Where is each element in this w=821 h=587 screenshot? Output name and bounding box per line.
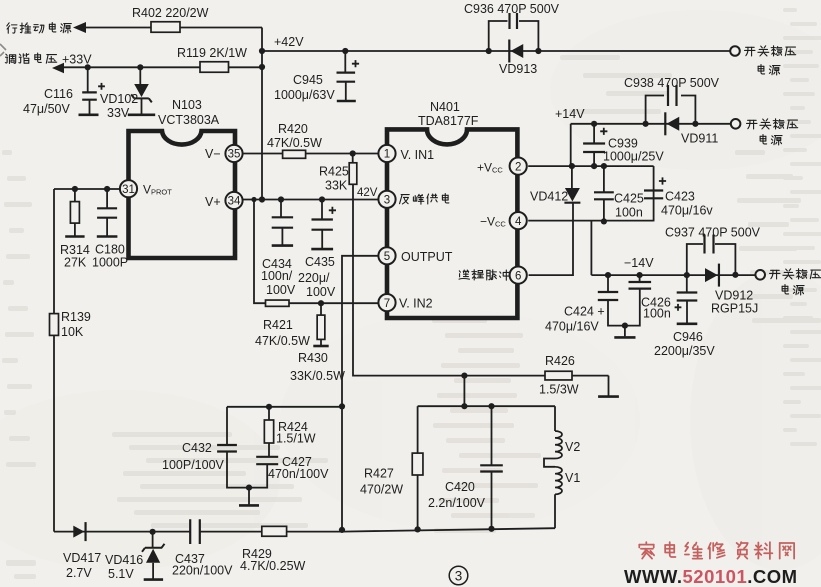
svg-text:2.2n/100V: 2.2n/100V xyxy=(428,496,486,510)
svg-text:R425: R425 xyxy=(319,165,349,179)
diode VD417 2.7V xyxy=(73,526,84,538)
svg-text:N103: N103 xyxy=(172,98,202,112)
capacitor C937 xyxy=(687,244,736,275)
diode VD412 xyxy=(569,163,575,169)
zener diode VD102 33V xyxy=(137,64,143,70)
svg-text:C435: C435 xyxy=(305,255,335,269)
inductor V2 (yoke) xyxy=(555,431,562,459)
watermark: repair-info website (red) xyxy=(639,542,654,558)
pin 2 +Vcc xyxy=(510,158,527,175)
svg-text:V1: V1 xyxy=(565,471,580,485)
svg-text:R420: R420 xyxy=(278,122,308,136)
resistor R426 xyxy=(545,371,572,380)
svg-text:5: 5 xyxy=(384,251,390,263)
svg-text:220μ/: 220μ/ xyxy=(298,271,330,285)
capacitor C938 xyxy=(643,121,649,127)
svg-text:31: 31 xyxy=(122,184,135,196)
node: tuning voltage arrow xyxy=(52,63,64,74)
svg-text:1000μ/25V: 1000μ/25V xyxy=(603,150,664,164)
junction pin34 branch xyxy=(251,197,256,202)
svg-text:10K: 10K xyxy=(61,325,84,339)
svg-text:47μ/50V: 47μ/50V xyxy=(23,102,70,116)
svg-text:TDA8177F: TDA8177F xyxy=(418,114,479,128)
wire: -14V wire y=275.1 xyxy=(591,274,755,276)
svg-text:C938 470P 500V: C938 470P 500V xyxy=(624,76,720,90)
svg-text:C937 470P 500V: C937 470P 500V xyxy=(665,226,761,240)
resistor R429 xyxy=(262,526,287,536)
svg-text:V2: V2 xyxy=(565,440,580,454)
wire: 42V line pin34 to pin3 (y=199.3) xyxy=(242,199,378,201)
wire: yoke network top wire y=406.2 xyxy=(418,405,555,407)
svg-text:R430: R430 xyxy=(298,351,328,365)
capacitor C425 xyxy=(601,163,607,169)
resistor R139 xyxy=(50,314,59,336)
wire: bottom rail (output to yoke return) y=531..528 xyxy=(54,528,555,531)
svg-text:47K/0.5W: 47K/0.5W xyxy=(267,136,322,150)
svg-text:5.1V: 5.1V xyxy=(108,567,134,581)
svg-text:100n/: 100n/ xyxy=(261,269,293,283)
pin 35 xyxy=(225,145,242,162)
svg-text:R139: R139 xyxy=(61,310,91,324)
wire: N401 pin6 wire up to VD412 xyxy=(529,203,573,275)
svg-text:C423: C423 xyxy=(665,190,695,204)
svg-text:470μ/16v: 470μ/16v xyxy=(661,204,713,218)
svg-text:V. IN1: V. IN1 xyxy=(401,148,435,162)
svg-text:33V: 33V xyxy=(107,106,130,120)
svg-text:C432: C432 xyxy=(182,441,212,455)
diode VD911 xyxy=(667,117,680,131)
terminal: switching PSU (+14V src) xyxy=(731,119,741,129)
wire: damping network top wire y=406.6 xyxy=(227,406,342,408)
capacitor C946 xyxy=(684,272,690,278)
zener VD416 5.1V xyxy=(150,529,156,535)
svg-text:C936 470P 500V: C936 470P 500V xyxy=(464,2,560,16)
svg-text:3: 3 xyxy=(384,195,390,207)
svg-text:470/2W: 470/2W xyxy=(360,483,403,497)
svg-text:220n/100V: 220n/100V xyxy=(172,564,233,578)
svg-text:N401: N401 xyxy=(430,100,460,114)
svg-text:470n/100V: 470n/100V xyxy=(268,467,329,481)
svg-text:1000μ/63V: 1000μ/63V xyxy=(274,88,335,102)
svg-text:100V: 100V xyxy=(266,283,296,297)
IC N401 TDA8177F xyxy=(387,129,517,318)
svg-text:V−: V− xyxy=(205,147,221,161)
wire: R426 right end down to ground xyxy=(608,376,610,396)
resistor R430 xyxy=(318,300,324,306)
svg-text:3: 3 xyxy=(455,569,463,584)
wire: left protection branch x=54 xyxy=(53,189,55,532)
capacitor C437 (series) xyxy=(191,519,200,544)
wire: +42V vertical rail x=262 xyxy=(261,28,263,200)
circled page number 3 xyxy=(449,566,468,585)
svg-text:42V: 42V xyxy=(357,187,378,199)
pin 6 flyback pulse xyxy=(510,267,527,284)
svg-text:VD911: VD911 xyxy=(681,132,718,146)
svg-text:1.5/3W: 1.5/3W xyxy=(539,383,579,397)
svg-text:C946: C946 xyxy=(673,330,703,344)
capacitor C423 xyxy=(644,191,663,199)
svg-text:C180: C180 xyxy=(95,243,125,257)
svg-text:2.7V: 2.7V xyxy=(66,566,92,580)
svg-text:2: 2 xyxy=(515,161,521,173)
svg-text:27K: 27K xyxy=(64,256,87,270)
resistor R314 xyxy=(72,186,78,192)
svg-text:6: 6 xyxy=(515,270,521,282)
capacitor C426 xyxy=(637,272,643,278)
svg-text:VD412: VD412 xyxy=(530,190,568,204)
wire: N401 pin4 wire y=220.6 xyxy=(528,220,653,222)
pin 4 -Vcc xyxy=(510,212,527,229)
node: line-drive supply arrow xyxy=(73,22,86,33)
wire: +42V horizontal rail y=51 xyxy=(262,50,730,52)
terminal: switching PSU (-14V src) xyxy=(755,270,765,280)
svg-text:R119 2K/1W: R119 2K/1W xyxy=(177,46,247,60)
capacitor C427 xyxy=(268,443,270,457)
svg-text:C425: C425 xyxy=(614,192,644,206)
wire: R425 feedback vertical B x=353 down to R426 line xyxy=(353,184,609,375)
wire: line-drive supply feed (top rail y=27) xyxy=(86,27,262,29)
svg-text:1.5/1W: 1.5/1W xyxy=(276,432,316,446)
svg-text:RGP15J: RGP15J xyxy=(711,302,758,316)
svg-text:VD913: VD913 xyxy=(499,62,537,76)
wire: VD412 anode lead xyxy=(571,166,573,188)
wire: pin4 jog down to -14V wire xyxy=(590,221,592,276)
svg-text:VD416: VD416 xyxy=(105,553,143,567)
svg-text:100n: 100n xyxy=(643,307,671,321)
resistor R119 xyxy=(200,62,229,73)
svg-text:VD102: VD102 xyxy=(100,92,138,106)
wire: yoke right branch V2/V1 xyxy=(554,406,556,431)
terminal: switching PSU (42V) xyxy=(730,46,740,56)
svg-text:470μ/16V: 470μ/16V xyxy=(545,320,599,334)
svg-text:V+: V+ xyxy=(205,195,221,209)
capacitor C936 xyxy=(486,48,492,54)
wire: +33V tuning line y=67.3 xyxy=(64,66,262,68)
wire: +14V top wire y=123.8 xyxy=(571,124,731,166)
svg-text:1: 1 xyxy=(384,149,390,161)
wire: pin34 branch down to R421 line xyxy=(254,200,378,304)
svg-text:+14V: +14V xyxy=(555,107,585,121)
svg-text:OUTPUT: OUTPUT xyxy=(401,250,453,264)
svg-text:47K/0.5W: 47K/0.5W xyxy=(255,334,310,348)
pin 3 flyback supply xyxy=(378,191,395,208)
resistor R427 xyxy=(417,406,419,453)
svg-text:WWW.520101.COM: WWW.520101.COM xyxy=(624,566,798,587)
svg-text:−14V: −14V xyxy=(624,256,654,270)
svg-text:R426: R426 xyxy=(545,354,575,368)
pin 7 V.IN2 xyxy=(378,294,395,311)
svg-text:100V: 100V xyxy=(306,285,336,299)
pin 31 xyxy=(120,180,137,197)
capacitor C420 xyxy=(461,403,467,409)
inductor tap jog xyxy=(544,459,555,467)
svg-text:100P/100V: 100P/100V xyxy=(162,458,225,472)
svg-text:C420: C420 xyxy=(445,480,475,494)
capacitor C116 xyxy=(85,64,91,70)
svg-text:7: 7 xyxy=(384,298,390,310)
resistor R420 xyxy=(283,150,306,158)
resistor R402 xyxy=(151,22,180,33)
capacitor C435 xyxy=(319,196,325,202)
svg-text:C945: C945 xyxy=(293,73,323,87)
svg-text:35: 35 xyxy=(228,149,241,161)
svg-text:C939: C939 xyxy=(608,137,638,151)
wire: N103 pin35 to N401 pin1 (y=154.3) xyxy=(243,153,379,155)
svg-text:33K/0.5W: 33K/0.5W xyxy=(290,369,345,383)
wire: C423 down leg xyxy=(653,166,655,221)
wire: N103 pin31 wire y=189 xyxy=(54,188,120,190)
svg-text:100n: 100n xyxy=(615,206,643,220)
capacitor C939 xyxy=(591,121,597,127)
capacitor C432 xyxy=(226,407,228,445)
svg-text:VCT3803A: VCT3803A xyxy=(158,113,220,127)
svg-text:V. IN2: V. IN2 xyxy=(399,297,433,311)
svg-text:R402 220/2W: R402 220/2W xyxy=(132,6,209,20)
wire: feedback node down to yoke top xyxy=(463,376,465,407)
svg-text:1000P: 1000P xyxy=(92,256,128,270)
resistor R424 xyxy=(266,404,272,410)
op-amp/IC N103 VCT3803A xyxy=(129,131,236,258)
svg-text:+42V: +42V xyxy=(274,35,304,49)
inductor V1 (yoke) xyxy=(555,467,562,495)
resistor R421 xyxy=(266,300,290,306)
capacitor C424 xyxy=(605,272,611,278)
svg-text:4: 4 xyxy=(515,216,522,228)
svg-text:4.7K/0.25W: 4.7K/0.25W xyxy=(240,559,306,573)
svg-text:R421: R421 xyxy=(263,318,293,332)
svg-text:VD417: VD417 xyxy=(63,551,101,565)
svg-text:33K: 33K xyxy=(325,179,348,193)
svg-text:2200μ/35V: 2200μ/35V xyxy=(654,344,715,358)
capacitor C180 xyxy=(104,186,110,192)
svg-text:R427: R427 xyxy=(364,467,394,481)
diode VD913 xyxy=(511,44,524,58)
pin 1 V.IN1 xyxy=(378,145,395,162)
wire: N401 pin2 wire y=166.1 xyxy=(528,165,653,167)
pin 5 OUTPUT xyxy=(378,247,395,264)
svg-text:C116: C116 xyxy=(44,87,73,101)
svg-text:VD912: VD912 xyxy=(715,289,753,303)
svg-text:34: 34 xyxy=(228,196,241,208)
capacitor C945 xyxy=(342,48,348,54)
wire: pin5 OUTPUT left and down (vertical A x=342) xyxy=(342,256,378,530)
svg-text:C424 +: C424 + xyxy=(564,305,605,319)
resistor R425 xyxy=(350,150,356,156)
capacitor C434 xyxy=(278,196,284,202)
pin 34 xyxy=(225,192,242,209)
diode VD912 RGP15J xyxy=(705,268,718,282)
